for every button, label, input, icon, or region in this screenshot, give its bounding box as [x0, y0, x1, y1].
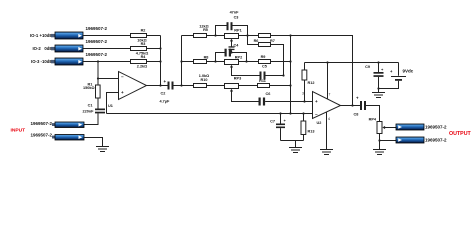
wire U2 output — [341, 105, 361, 107]
svg-text:9Vdc: 9Vdc — [403, 69, 414, 74]
capacitor C8 — [354, 96, 367, 117]
svg-text:C9: C9 — [365, 65, 370, 69]
node bus R4 — [159, 60, 161, 62]
svg-text:4: 4 — [328, 117, 330, 121]
svg-text:R2: R2 — [141, 29, 146, 33]
node C4 to bridge2 — [230, 51, 232, 53]
potentiometer RP1 — [225, 29, 242, 39]
wire R10 to RP3 — [207, 85, 225, 87]
node RP4 bottom — [378, 139, 380, 141]
wire RP1 to R7 — [239, 35, 259, 37]
svg-text:C7: C7 — [270, 120, 275, 124]
svg-text:R13: R13 — [308, 130, 315, 134]
capacitor C3 47nF bridge — [216, 11, 248, 36]
node bus2 T2 — [289, 60, 291, 62]
node bus2 T3 — [289, 84, 291, 86]
svg-text:R8: R8 — [204, 56, 209, 60]
capacitor C2 4.7uF — [160, 79, 174, 104]
wire riser to R8 — [182, 61, 194, 63]
svg-text:47nF: 47nF — [230, 11, 240, 15]
wire inverting input — [98, 78, 119, 80]
connector J1 1969507-2 — [51, 26, 108, 39]
wire R8 to RP2 — [207, 61, 225, 63]
svg-text:R6: R6 — [254, 39, 259, 43]
svg-text:1969507-2: 1969507-2 — [86, 26, 108, 31]
wire summing vertical — [97, 62, 99, 86]
svg-text:C8: C8 — [354, 113, 359, 117]
svg-text:R11: R11 — [259, 79, 266, 83]
node rail C9 — [377, 61, 379, 63]
svg-text:1969507-2: 1969507-2 — [425, 124, 447, 129]
svg-text:−: − — [121, 75, 124, 80]
resistor R9 — [259, 55, 271, 64]
svg-text:150kΩ: 150kΩ — [83, 86, 95, 90]
connector J7 1969507-2 output gnd — [396, 137, 447, 143]
wire J2 to R3 — [83, 48, 131, 50]
svg-text:1969507-2: 1969507-2 — [30, 121, 52, 126]
op-amp U1 — [108, 72, 147, 109]
wire R11 to bus2 — [270, 85, 291, 87]
node row3 tap — [97, 60, 99, 62]
capacitor C5 bridge over RP2 — [216, 49, 247, 62]
wire R7 to bus2 — [271, 35, 291, 37]
wire J5 to ground — [84, 138, 103, 147]
connector J2 1969507-2 — [51, 39, 108, 52]
svg-text:IO-3 -10dB: IO-3 -10dB — [31, 59, 53, 64]
resistor R10 — [194, 74, 210, 88]
node rail U2 — [326, 61, 328, 63]
svg-text:C1: C1 — [88, 104, 93, 108]
node bus R3 — [159, 47, 161, 49]
wire U2 V- to ground — [326, 112, 328, 150]
resistor R6 — [248, 36, 284, 76]
node R12 noninv — [303, 100, 305, 102]
resistor R13 — [301, 112, 314, 140]
wire R5 to RP1 — [207, 35, 225, 37]
connector J3 1969507-2 — [51, 52, 108, 65]
op-amp U2 — [313, 92, 341, 126]
wire riser to R5 — [182, 35, 194, 37]
svg-text:IO-2 0dB: IO-2 0dB — [32, 46, 52, 51]
wire R3 to bus — [147, 48, 161, 50]
potentiometer RP2 — [225, 56, 243, 65]
wire C8 to RP4 — [366, 106, 380, 122]
capacitor C4 on RP1 wiper — [229, 39, 240, 53]
svg-text:1969507-2: 1969507-2 — [425, 137, 447, 142]
ground C7 R13 — [289, 141, 302, 153]
ground input jack — [96, 147, 109, 152]
wire RP3 to R11 — [239, 85, 258, 87]
svg-text:OUTPUT: OUTPUT — [449, 131, 472, 137]
svg-text:1969507-2: 1969507-2 — [86, 39, 108, 44]
connector J5 1969507-2 input gnd — [30, 133, 84, 140]
svg-text:R10: R10 — [201, 78, 208, 82]
svg-text:U1: U1 — [108, 104, 113, 108]
svg-text:R3: R3 — [141, 42, 146, 46]
svg-text:1969507-2: 1969507-2 — [30, 133, 52, 138]
wire C1 to input jack — [84, 113, 98, 124]
svg-text:+: + — [356, 96, 359, 101]
capacitor C6 RP3 wiper — [230, 89, 313, 106]
svg-text:+: + — [164, 79, 167, 84]
capacitor C7 — [270, 112, 286, 140]
wire RP4 bottom to jack — [380, 140, 397, 142]
node bridge2 left — [214, 60, 216, 62]
svg-text:3: 3 — [302, 92, 304, 96]
node bus2 rail — [289, 112, 291, 114]
potentiometer RP4 — [369, 118, 396, 150]
resistor R12 — [302, 63, 314, 102]
svg-text:R9: R9 — [261, 55, 266, 59]
wire ladder riser — [181, 36, 183, 86]
svg-text:7: 7 — [329, 93, 331, 97]
wire U2 V+ — [327, 63, 329, 99]
wire R4 to bus — [147, 61, 161, 63]
potentiometer RP3 — [225, 77, 242, 89]
wire R2 to bus — [147, 35, 161, 37]
resistor R3 — [131, 42, 149, 56]
resistor R5 — [194, 25, 209, 38]
ground battery — [372, 89, 385, 98]
power rail 9V — [305, 62, 399, 64]
wire C7 R13 join — [281, 140, 304, 142]
wire U1 output — [147, 85, 168, 87]
resistor R7 — [259, 34, 275, 44]
svg-text:R12: R12 — [308, 81, 315, 85]
svg-text:RP3: RP3 — [234, 77, 241, 81]
node bridge1 right — [246, 34, 248, 36]
node ladder riser bottom — [180, 84, 182, 86]
resistor R1 — [83, 82, 100, 98]
wire RP2 to R9 — [239, 61, 259, 63]
resistor R8 — [194, 56, 209, 64]
node output feedback — [351, 104, 353, 106]
node bus2 top — [289, 34, 291, 36]
svg-text:+: + — [121, 90, 124, 95]
svg-text:R5: R5 — [203, 28, 208, 32]
node C9 bottom — [377, 87, 379, 89]
svg-text:RP1: RP1 — [234, 29, 241, 33]
svg-text:IO-1 +10dB: IO-1 +10dB — [30, 33, 53, 38]
battery 9Vdc — [379, 63, 414, 89]
wire R1 to C1 — [97, 98, 99, 109]
node riser T2 — [180, 60, 182, 62]
wire feedback top — [291, 36, 353, 106]
svg-text:220nF: 220nF — [83, 109, 95, 113]
capacitor C5 RP2 wiper — [230, 65, 284, 80]
wire feedback bus vertical — [160, 36, 162, 86]
wire J3 to R4 — [83, 61, 131, 63]
svg-text:C6: C6 — [266, 92, 271, 96]
node bus output — [159, 84, 161, 86]
wire bias rail — [107, 113, 313, 115]
capacitor C1 220nF — [83, 104, 105, 114]
svg-text:U2: U2 — [317, 121, 322, 125]
svg-text:RP2: RP2 — [235, 56, 242, 60]
svg-text:C5: C5 — [262, 65, 267, 69]
svg-text:1969507-2: 1969507-2 — [86, 52, 108, 57]
node inverting tap — [97, 77, 99, 79]
capacitor C9 — [365, 63, 384, 89]
wire non-inverting stub — [107, 93, 119, 114]
svg-text:4.7µF: 4.7µF — [160, 100, 170, 104]
connector J6 1969507-2 output hot — [396, 124, 447, 130]
resistor R4 — [131, 55, 148, 69]
node bridge2 right — [245, 60, 247, 62]
svg-text:C2: C2 — [161, 92, 166, 96]
wire J1 to R2 — [83, 35, 131, 37]
ground RP4 — [373, 150, 386, 155]
resistor R2 — [131, 29, 147, 43]
ground U2 — [320, 150, 333, 155]
svg-text:RP4: RP4 — [369, 118, 377, 122]
node bridge1 left — [214, 34, 216, 36]
svg-text:INPUT: INPUT — [11, 128, 26, 134]
svg-text:+: + — [315, 99, 318, 104]
svg-text:2.2kΩ: 2.2kΩ — [137, 65, 147, 69]
svg-text:C3: C3 — [234, 15, 239, 19]
node R6 to wiper cap line — [282, 74, 284, 76]
wire C2 to ladder — [174, 85, 194, 87]
wire bus2 vertical — [290, 36, 292, 114]
connector J4 1969507-2 input hot — [30, 121, 84, 128]
resistor R11 — [258, 79, 270, 87]
wire R9 to bus2 — [271, 61, 291, 63]
svg-text:−: − — [315, 112, 318, 117]
